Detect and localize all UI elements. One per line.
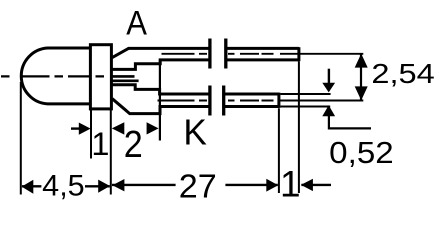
extension line cathode lead end: [278, 108, 280, 193]
svg-text:27: 27: [179, 167, 217, 204]
cathode lead edge extension lines (for 0,52): [280, 94, 330, 107]
dimension 27 (lead length): [112, 167, 278, 204]
extension line flange left: [90, 110, 92, 159]
anode lead centerline: [162, 53, 298, 55]
svg-text:K: K: [183, 111, 207, 152]
extension line from dome tip: [20, 82, 22, 195]
inner stub lines near flange: [112, 76, 138, 80]
svg-text:A: A: [126, 4, 147, 42]
cathode lead centerline: [158, 100, 274, 102]
dimension 1 (lead end offset, bottom right): [280, 163, 331, 204]
dimension 1 (flange thickness): [71, 122, 124, 162]
flange: [90, 45, 111, 109]
dimension 2 (stand-off length): [124, 122, 159, 166]
dimension 2,54 (lead spacing): [279, 54, 435, 101]
extension line flange right (long): [110, 110, 112, 195]
cathode lead (bottom) outline: [112, 85, 279, 114]
break marks upper lead: [210, 39, 226, 69]
centerline (LED axis, dash-dot): [1, 75, 104, 77]
dimension 4,5 (body length): [22, 170, 110, 202]
anode lead (top) outline: [112, 47, 299, 69]
svg-text:1: 1: [280, 163, 301, 204]
extension line anode lead end (down): [298, 61, 300, 193]
dimension 0,52 (lead thickness) with leader arrows: [322, 69, 393, 171]
extension line at lead step (2mm): [159, 60, 161, 141]
break marks lower lead: [210, 86, 224, 116]
svg-text:1: 1: [91, 126, 109, 162]
dome (LED body): [21, 48, 90, 104]
svg-text:4,5: 4,5: [42, 170, 84, 202]
svg-text:2,54: 2,54: [371, 58, 434, 89]
svg-text:2: 2: [124, 124, 143, 166]
svg-text:0,52: 0,52: [329, 135, 394, 170]
